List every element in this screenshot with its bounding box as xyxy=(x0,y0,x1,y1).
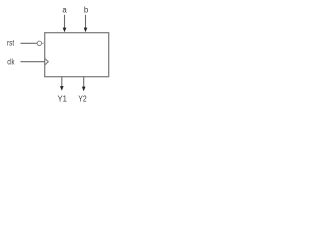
clock triangle xyxy=(45,59,48,65)
inversion bubble rst xyxy=(37,41,41,45)
wire clk xyxy=(21,61,45,63)
svg-text:a: a xyxy=(62,5,67,14)
wire Y2 xyxy=(83,77,85,88)
wire b xyxy=(85,15,87,28)
wire rst xyxy=(21,42,38,44)
module body U1 xyxy=(45,33,109,77)
wire a xyxy=(64,15,66,28)
arrowhead Y1 xyxy=(60,86,64,91)
svg-text:Y2: Y2 xyxy=(78,95,87,104)
svg-text:b: b xyxy=(84,5,89,14)
arrowhead b xyxy=(84,28,88,33)
wire bubble to box xyxy=(42,42,45,44)
svg-text:rst: rst xyxy=(7,39,15,48)
wire Y1 xyxy=(61,77,63,87)
arrowhead Y2 xyxy=(82,87,86,92)
arrowhead a xyxy=(63,28,67,33)
svg-text:Y1: Y1 xyxy=(58,95,68,104)
svg-text:clk: clk xyxy=(7,58,14,67)
